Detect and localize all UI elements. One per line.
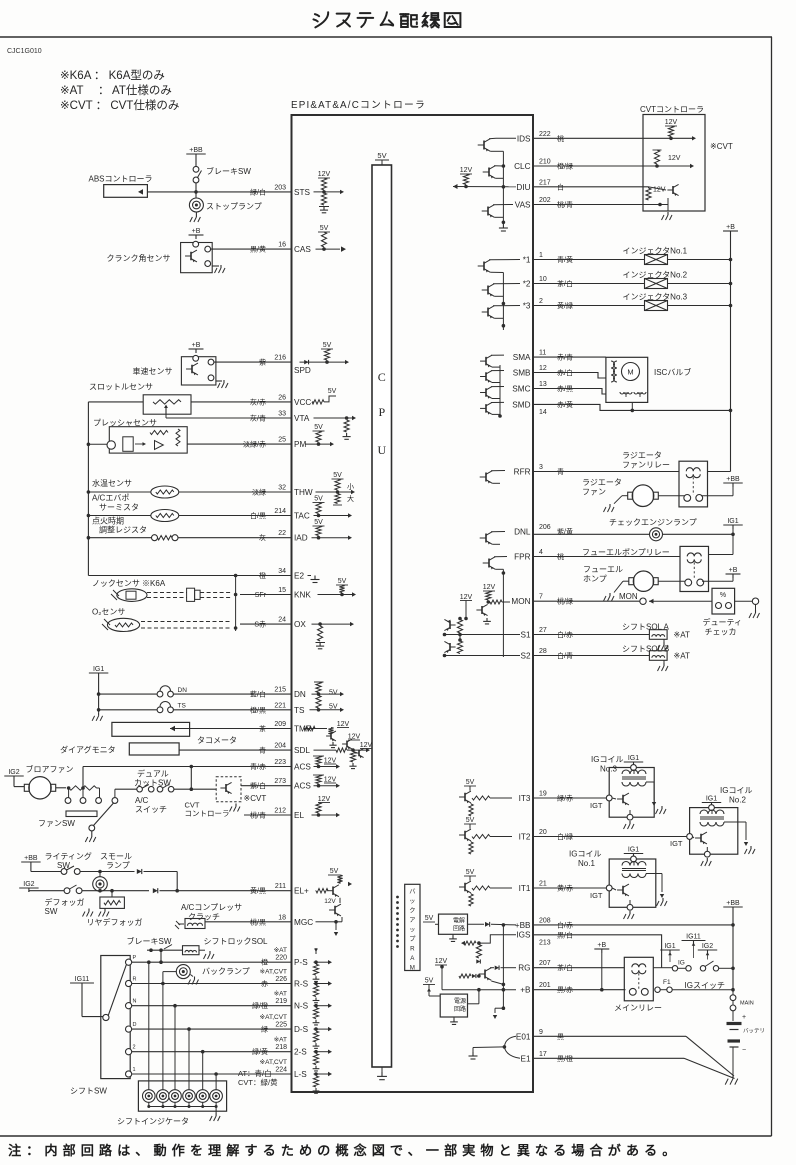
fuel pump motor — [633, 571, 653, 591]
svg-text:スロットルセンサ: スロットルセンサ — [89, 383, 153, 392]
svg-text:淡緑: 淡緑 — [252, 488, 266, 497]
wire SPD row — [214, 361, 292, 363]
main relay — [624, 957, 653, 1001]
blower fan motor — [29, 777, 51, 799]
svg-text:デュアル: デュアル — [137, 769, 169, 779]
wire E2 row — [88, 575, 291, 577]
pressure port — [107, 441, 115, 449]
brake switch SW1 — [195, 158, 197, 167]
svg-text:※AT: ※AT — [674, 652, 690, 661]
wire ACS2 row — [241, 785, 292, 787]
ISC coil left — [611, 361, 615, 382]
-B row internals — [442, 989, 516, 991]
svg-text:プレッシャセンサ: プレッシャセンサ — [93, 419, 157, 428]
shift contact R — [126, 980, 132, 986]
svg-text:223: 223 — [274, 759, 286, 766]
svg-text:IT3: IT3 — [519, 794, 531, 803]
svg-text:淡緑/赤: 淡緑/赤 — [243, 440, 266, 449]
svg-text:5V: 5V — [425, 978, 434, 985]
svg-text:5V: 5V — [466, 817, 475, 824]
svg-text:D: D — [133, 1022, 137, 1028]
shift indicator lamp 1 — [148, 962, 150, 1089]
svg-text:*3: *3 — [523, 302, 531, 311]
svg-text:IG2: IG2 — [23, 881, 34, 888]
svg-text:204: 204 — [274, 743, 286, 750]
svg-text:201: 201 — [539, 982, 551, 989]
svg-text:5V: 5V — [329, 704, 338, 711]
svg-text:219: 219 — [275, 998, 287, 1005]
svg-text:P-S: P-S — [294, 958, 308, 967]
S1 S2 opto drivers — [458, 617, 462, 621]
sensor common rail — [87, 402, 89, 576]
svg-text:+BB: +BB — [726, 476, 740, 483]
svg-text:大: 大 — [347, 494, 354, 503]
arrow into ABS box — [138, 189, 143, 195]
shift lever — [108, 965, 126, 1016]
diode defogger — [153, 888, 158, 893]
IG1 ground — [98, 713, 100, 716]
shift contact 2 — [126, 1049, 132, 1055]
svg-text:5V: 5V — [314, 519, 323, 526]
svg-text:11: 11 — [539, 350, 546, 357]
svg-text:黄/黒: 黄/黒 — [250, 886, 266, 895]
wire RG 207 — [533, 967, 624, 969]
shift 1 row wire — [132, 1073, 292, 1075]
AC switch chain — [114, 789, 116, 797]
svg-text:藍/白: 藍/白 — [250, 690, 266, 699]
svg-text:SMA: SMA — [513, 353, 531, 362]
throttle wiper — [165, 407, 167, 414]
SDL input network — [314, 749, 337, 751]
svg-text:12V: 12V — [360, 742, 373, 749]
svg-text:15: 15 — [278, 587, 286, 594]
wire IGS 213 — [533, 935, 662, 968]
svg-text:緑/黄: 緑/黄 — [252, 1047, 268, 1056]
duty checker box — [712, 588, 735, 614]
svg-text:ノックセンサ ※K6A: ノックセンサ ※K6A — [92, 579, 166, 588]
shift row input networks — [314, 961, 329, 963]
battery — [727, 1022, 742, 1025]
svg-text:+BB: +BB — [24, 855, 38, 862]
shift contact N — [126, 1003, 132, 1009]
svg-text:ACS: ACS — [294, 763, 311, 772]
DN TS pullup chain — [314, 681, 324, 683]
svg-text:橙: 橙 — [261, 958, 268, 967]
svg-text:3: 3 — [539, 464, 543, 471]
svg-text:216: 216 — [274, 355, 286, 362]
svg-text:ライティング: ライティング — [45, 851, 92, 861]
shift 2 row wire — [132, 1051, 292, 1053]
svg-text:5V: 5V — [323, 342, 332, 349]
svg-text:12: 12 — [539, 365, 547, 372]
svg-text:※CVT: ※CVT — [710, 142, 733, 151]
svg-text:ク: ク — [409, 908, 415, 915]
test switch DN — [99, 693, 157, 695]
battery ground — [732, 1075, 734, 1079]
svg-text:225: 225 — [275, 1022, 287, 1029]
THW input network — [316, 491, 353, 493]
svg-text:シフトインジケータ: シフトインジケータ — [117, 1117, 189, 1126]
svg-text:2-S: 2-S — [294, 1048, 307, 1057]
stop lamp ground — [195, 212, 197, 214]
svg-text:224: 224 — [275, 1067, 287, 1074]
svg-text:CLC: CLC — [514, 162, 530, 171]
svg-text:210: 210 — [539, 159, 551, 166]
svg-text:DNL: DNL — [514, 528, 531, 537]
svg-text:VTA: VTA — [294, 414, 310, 423]
svg-text:橙: 橙 — [259, 571, 266, 580]
shield rail — [235, 576, 237, 632]
svg-text:IGS: IGS — [516, 930, 531, 939]
AC compressor clutch solenoid — [178, 923, 184, 925]
svg-text:C: C — [378, 370, 386, 384]
svg-text:19: 19 — [539, 791, 547, 798]
wire +B 201 — [533, 989, 626, 991]
EL+ driver — [315, 890, 318, 892]
svg-text:E01: E01 — [516, 1032, 531, 1041]
svg-text:ラジエータ: ラジエータ — [622, 451, 662, 460]
svg-text:+B: +B — [729, 567, 738, 574]
shift lever common — [103, 1014, 109, 1020]
knock shield wire dashed — [147, 592, 187, 594]
svg-text:タコメータ: タコメータ — [197, 736, 237, 745]
wire STS row — [147, 191, 292, 193]
svg-text:IG1: IG1 — [93, 666, 104, 673]
CVT box ground — [667, 205, 669, 212]
svg-text:※AT,CVT: ※AT,CVT — [260, 1059, 287, 1066]
svg-text:IT1: IT1 — [519, 884, 531, 893]
wire TMR row — [190, 728, 292, 730]
O2 shield wire dashed — [141, 621, 230, 623]
svg-text:R: R — [133, 977, 137, 983]
wire VAS to CVT — [533, 204, 660, 206]
svg-text:※CVT ： CVT仕様のみ: ※CVT ： CVT仕様のみ — [60, 98, 179, 112]
svg-text:34: 34 — [278, 568, 286, 575]
wire DN row — [173, 693, 291, 695]
svg-text:THW: THW — [294, 488, 313, 497]
svg-text:IG1: IG1 — [628, 755, 639, 762]
svg-text:※AT: ※AT — [274, 1037, 287, 1044]
tachometer box — [112, 722, 190, 736]
pressure bridge resistor — [150, 431, 168, 435]
svg-text:214: 214 — [274, 508, 286, 515]
svg-text:EL+: EL+ — [294, 887, 309, 896]
sensor rail left — [88, 401, 143, 403]
wire MGC row — [205, 921, 292, 923]
svg-text:5V: 5V — [330, 868, 339, 875]
svg-text:No.1: No.1 — [578, 859, 595, 868]
ignition timing adjust resistor — [88, 537, 151, 539]
svg-text:20: 20 — [539, 829, 547, 836]
svg-text:コントローラ: コントローラ — [185, 809, 230, 818]
lighting row to diode — [80, 871, 135, 873]
svg-text:SMD: SMD — [512, 400, 530, 409]
pressure element — [123, 437, 133, 452]
svg-text:ストップランプ: ストップランプ — [206, 202, 262, 211]
pressure sensor box — [109, 427, 187, 453]
svg-text:5V: 5V — [314, 496, 323, 503]
shift indicator box — [138, 1081, 226, 1111]
svg-text:IT2: IT2 — [519, 833, 531, 842]
svg-text:M: M — [410, 965, 415, 972]
svg-text:ランプ: ランプ — [106, 861, 130, 870]
svg-text:黒/黄: 黒/黄 — [250, 245, 266, 254]
OX input network — [312, 623, 351, 625]
svg-text:7: 7 — [539, 594, 543, 601]
svg-text:215: 215 — [274, 687, 286, 694]
svg-text:小: 小 — [347, 482, 354, 491]
svg-text:ラジエータ: ラジエータ — [582, 478, 622, 487]
KNK input network — [318, 594, 353, 596]
svg-text:5V: 5V — [425, 915, 434, 922]
svg-text:12V: 12V — [483, 584, 496, 591]
shift indicator common — [149, 1106, 216, 1108]
svg-text:フューエルポンプリレー: フューエルポンプリレー — [582, 548, 670, 557]
svg-text:IGコイル: IGコイル — [720, 786, 752, 795]
svg-text:シフトSOL B: シフトSOL B — [622, 645, 669, 654]
svg-text:+B: +B — [726, 224, 735, 231]
svg-text:CAS: CAS — [294, 245, 311, 254]
wire VCC row — [191, 401, 292, 403]
shift switch box — [101, 956, 130, 1079]
svg-text:5V: 5V — [333, 472, 342, 479]
svg-text:IGスイッチ: IGスイッチ — [685, 981, 725, 990]
svg-text:※K6A ： K6A型のみ: ※K6A ： K6A型のみ — [60, 68, 165, 82]
svg-text:M: M — [627, 368, 633, 377]
svg-text:R: R — [410, 946, 415, 953]
backup RAM connector dots — [396, 896, 399, 899]
svg-text:12V: 12V — [460, 594, 473, 601]
svg-text:ABSコントローラ: ABSコントローラ — [89, 175, 153, 184]
wire OX row — [240, 623, 292, 625]
wire SMD — [533, 404, 731, 410]
svg-text:AT：青/白: AT：青/白 — [238, 1068, 272, 1078]
O2 sensor — [107, 618, 139, 631]
svg-text:IG11: IG11 — [686, 934, 701, 941]
svg-text:SDL: SDL — [294, 746, 310, 755]
wire CAS row — [211, 248, 292, 250]
defogger switch — [29, 890, 64, 892]
bus ground tap — [502, 1006, 506, 1010]
svg-text:MON: MON — [619, 592, 638, 601]
svg-text:+B: +B — [520, 986, 531, 995]
svg-text:白/黒: 白/黒 — [250, 511, 266, 520]
svg-text:IG1: IG1 — [727, 518, 738, 525]
svg-text:点火時期: 点火時期 — [92, 517, 124, 526]
svg-text:EPI&AT&A/Cコントローラ: EPI&AT&A/Cコントローラ — [291, 99, 426, 111]
shift lock solenoid — [183, 946, 200, 955]
svg-text:カットSW: カットSW — [134, 779, 171, 788]
svg-text:VCC: VCC — [294, 398, 311, 407]
IGS loop — [479, 935, 516, 943]
diag monitor box — [129, 743, 179, 755]
svg-text:E2: E2 — [294, 572, 304, 581]
svg-text:P: P — [133, 955, 137, 961]
svg-text:N: N — [133, 999, 137, 1005]
svg-text:12V: 12V — [337, 721, 350, 728]
svg-text:21: 21 — [539, 881, 547, 888]
shift contact D — [126, 1026, 132, 1032]
svg-text:*2: *2 — [523, 280, 531, 289]
svg-text:10: 10 — [539, 276, 547, 283]
svg-text:−: − — [742, 1047, 746, 1054]
title システム配線図 (hand-drawn strokes) — [313, 12, 460, 27]
svg-text:32: 32 — [278, 485, 286, 492]
svg-text:SW: SW — [57, 861, 70, 870]
svg-text:16: 16 — [278, 242, 286, 249]
svg-text:IGコイル: IGコイル — [569, 850, 601, 859]
svg-text:SFr: SFr — [255, 592, 267, 599]
IG switch contacts — [662, 967, 672, 969]
svg-text:28: 28 — [539, 648, 547, 655]
svg-text:12V: 12V — [435, 958, 448, 965]
wire CLC to CVT — [533, 165, 690, 167]
water temp thermistor — [88, 491, 150, 493]
IDS CLC DIU VAS drivers — [483, 141, 485, 150]
MAIN fuse and battery — [732, 990, 734, 995]
svg-text:ブロアファン: ブロアファン — [26, 764, 74, 774]
duty checker right terminal — [735, 600, 753, 602]
wire IDS to CVT — [533, 137, 692, 139]
svg-text:18: 18 — [278, 914, 286, 921]
svg-text:STS: STS — [294, 188, 310, 197]
svg-text:プ: プ — [409, 936, 416, 943]
svg-text:シフトSW: シフトSW — [70, 1087, 107, 1096]
wire SMC — [533, 389, 606, 395]
svg-text:スモール: スモール — [100, 852, 132, 861]
knock sensor — [117, 589, 147, 602]
branch to P row — [160, 950, 162, 962]
svg-text:209: 209 — [274, 721, 286, 728]
svg-text:A/Cエバポ: A/Cエバポ — [92, 494, 129, 503]
svg-text:EL: EL — [294, 811, 304, 820]
ISC coils bottom — [620, 392, 632, 394]
svg-text:211: 211 — [275, 883, 286, 890]
relay coil to IGS — [653, 967, 661, 969]
svg-text:灰/赤: 灰/赤 — [250, 397, 266, 406]
svg-text:A/Cコンプレッサ: A/Cコンプレッサ — [181, 903, 242, 912]
svg-text:A/C: A/C — [135, 796, 149, 805]
shift contact 1 — [126, 1071, 132, 1077]
wire TAC row — [179, 515, 292, 517]
svg-text:OX: OX — [294, 620, 306, 629]
E2 ground — [308, 575, 312, 577]
svg-text:青: 青 — [259, 746, 266, 755]
svg-text:5V: 5V — [328, 388, 337, 395]
svg-text:灰/青: 灰/青 — [250, 414, 266, 423]
svg-text:206: 206 — [539, 524, 551, 531]
svg-text:緑/橙: 緑/橙 — [252, 1001, 268, 1010]
relay coil to +B rail — [708, 471, 731, 473]
E01 E1 output — [504, 1036, 516, 1047]
svg-text:TS: TS — [178, 703, 187, 710]
svg-text:灰: 灰 — [259, 533, 266, 542]
svg-text:フューエル: フューエル — [583, 565, 623, 574]
svg-text:紫/白: 紫/白 — [250, 781, 266, 790]
fan switch lever — [94, 803, 114, 826]
svg-text:12V: 12V — [348, 734, 361, 741]
SMA-SMD drivers — [485, 357, 487, 366]
svg-text:9: 9 — [539, 1029, 543, 1036]
svg-text:33: 33 — [278, 411, 286, 418]
svg-text:2: 2 — [539, 298, 543, 305]
svg-text:P: P — [378, 405, 385, 419]
svg-text:222: 222 — [539, 131, 551, 138]
svg-text:ブレーキSW: ブレーキSW — [206, 166, 251, 176]
svg-text:S2: S2 — [520, 652, 530, 661]
svg-text:5V: 5V — [377, 151, 386, 160]
svg-text:スイッチ: スイッチ — [135, 805, 167, 814]
svg-text:12V: 12V — [318, 796, 331, 803]
svg-text:17: 17 — [539, 1051, 547, 1058]
test switch TS — [99, 709, 157, 711]
svg-text:DIU: DIU — [516, 183, 530, 192]
svg-text:メインリレー: メインリレー — [614, 1004, 662, 1013]
svg-text:電解: 電解 — [453, 917, 465, 925]
svg-text:14: 14 — [539, 409, 547, 416]
svg-text:CVT：緑/黄: CVT：緑/黄 — [238, 1077, 278, 1087]
svg-text:SMC: SMC — [512, 385, 530, 394]
CVT controller box top right — [643, 115, 705, 212]
svg-text:桃/青: 桃/青 — [250, 811, 266, 820]
svg-text:CVTコントローラ: CVTコントローラ — [640, 105, 704, 114]
wire IAD row — [178, 537, 292, 539]
svg-text:IG2: IG2 — [702, 943, 713, 950]
svg-text:DN: DN — [294, 690, 306, 699]
svg-text:N-S: N-S — [294, 1002, 309, 1011]
small lamp — [99, 872, 101, 877]
shift indicator lamp 6 — [215, 1074, 217, 1090]
svg-text:ISCバルブ: ISCバルブ — [654, 367, 691, 377]
svg-text:SW: SW — [45, 907, 58, 916]
svg-text:27: 27 — [539, 627, 547, 634]
CPU bar ground — [381, 1067, 383, 1072]
svg-text:208: 208 — [539, 917, 551, 924]
speed sensor ground — [216, 380, 222, 382]
svg-text:リヤデフォッガ: リヤデフォッガ — [87, 917, 143, 927]
svg-text:TS: TS — [294, 706, 305, 715]
svg-text:218: 218 — [275, 1044, 287, 1051]
svg-text:ッ: ッ — [409, 927, 415, 934]
shift R row wire — [132, 983, 292, 985]
svg-text:MAIN: MAIN — [740, 1001, 754, 1007]
svg-text:※AT ： AT仕様のみ: ※AT ： AT仕様のみ — [60, 83, 172, 97]
svg-text:No.2: No.2 — [729, 796, 746, 805]
blower resistor — [56, 787, 66, 789]
svg-text:ッ: ッ — [409, 898, 415, 905]
speed sensor box — [181, 357, 216, 385]
svg-text:12V: 12V — [324, 758, 337, 765]
svg-text:2: 2 — [133, 1045, 136, 1051]
crank angle sensor box — [181, 243, 213, 273]
wire E01 9 — [533, 1035, 686, 1037]
svg-text:IGT: IGT — [590, 801, 603, 810]
svg-text:デューティ: デューティ — [703, 617, 743, 627]
svg-text:ブレーキSW: ブレーキSW — [127, 936, 172, 946]
svg-text:MGC: MGC — [294, 918, 313, 927]
svg-text:ファンSW: ファンSW — [38, 819, 75, 828]
wire SMA — [533, 356, 606, 358]
svg-text:12V: 12V — [460, 167, 473, 174]
svg-text:ACS: ACS — [294, 782, 311, 791]
shift indicator lamp 3 — [174, 1006, 176, 1090]
svg-text:13: 13 — [539, 381, 547, 388]
diode lighting — [137, 869, 142, 874]
svg-text:緑/白: 緑/白 — [250, 187, 266, 196]
wire RFR — [533, 471, 679, 473]
shift D row wire — [132, 1028, 292, 1030]
svg-text:4: 4 — [539, 549, 543, 556]
